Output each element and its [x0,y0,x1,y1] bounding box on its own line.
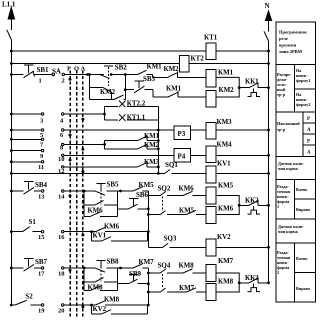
relay box P4 [174,149,191,163]
wire coil KM5 to junction [216,196,239,206]
svg-text:11: 11 [38,164,44,171]
svg-text:КМ7: КМ7 [218,257,234,265]
svg-text:18: 18 [58,271,65,278]
svg-text:20: 20 [58,308,65,315]
contactor coil KM4 [206,146,216,163]
branch SB3: vertical from rung1 [124,75,126,90]
contact KM7 (NO) on rung 17/18 [133,264,143,268]
contactor coil KM2 [206,91,216,108]
rung 1: wire from bus to SB1 [11,74,23,76]
contact KM8 (NO) on rung 19/20 [96,301,106,305]
wire to SB3 [125,89,134,91]
wire to coil KM2 [178,96,206,98]
svg-text:17: 17 [38,271,45,278]
wire coil KM1 to junction [216,77,239,87]
svg-text:О: О [74,66,79,73]
svg-text:форму1: форму1 [296,78,310,83]
rung 5/6 wire [11,129,41,131]
wire SB1 to SA contact [34,74,52,76]
svg-text:Р: Р [67,66,71,73]
wire SB3 to vertical [145,89,153,91]
svg-text:SQ1: SQ1 [165,161,178,169]
disconnect switch QF left pole [7,30,12,40]
relay coil KT2 [180,56,190,73]
rung 7/8 left wire [11,138,41,140]
contact KM6 (NO) on KM5 rung [183,191,193,195]
contactor coil KM5 [206,187,216,204]
svg-text:SB9: SB9 [129,270,142,278]
contact KM1 (NO) on rung 1 [138,70,147,74]
SA position dot rung 5/6 (P) [69,134,72,137]
thermal relay contact KK3 [241,282,249,284]
rung 9/10 left wire [11,150,41,152]
svg-text:КТ1.1: КТ1.1 [127,113,146,121]
svg-text:КМ3: КМ3 [144,158,160,166]
wire to P3 [64,129,174,131]
rung 17/18 wire from bus [11,267,23,269]
svg-text:А: А [307,151,311,156]
section 6: feed presence sensor 2 [278,224,304,234]
svg-text:КМ2: КМ2 [164,65,180,73]
svg-text:Р3: Р3 [178,130,186,138]
KM8 coil rung [148,291,159,293]
neutral arrow N [265,11,271,21]
mechanical link SQ2 dashed [162,197,164,212]
wire SB2 to node [111,74,137,76]
rung 3/4 wire from bus [11,113,41,115]
pushbutton SB1 [24,71,35,78]
switch S2 [15,300,27,305]
svg-text:1: 1 [39,78,42,85]
SA position dot rung 9/10 (P) [69,159,72,162]
pushbutton SB8 (two linked contacts) [95,268,106,272]
left bus L [10,40,12,306]
pushbutton SB4 [24,187,35,194]
contact KM7 (NO seal) on KM8 rung [167,291,187,293]
SA position dot rung 7/8 (A) [81,148,84,151]
SB5 lower contact branch [84,204,95,206]
pushbutton SB3 [134,86,145,93]
mechanical link SQ4 dashed [162,274,164,289]
corner down to SQ2 rung [147,191,149,247]
wire node to SB2 [90,74,105,76]
svg-text:КМ1: КМ1 [144,132,160,140]
wire coil KM3 to N [216,129,269,131]
SB6 branch wire [117,208,128,210]
svg-text:КМ8: КМ8 [179,262,195,270]
svg-text:КМ2: КМ2 [100,88,116,96]
SA position dot rung 19/20 (A) [81,305,84,308]
rung 13/14 wire from bus [11,190,23,192]
SB9 branch wire [117,283,128,285]
SQ1 feed wire from bus [11,172,164,174]
branch KM8 seal: vertical from rung 17/18 [83,268,85,290]
contact KV2 (NO) [102,310,112,314]
contact KM6 (NO) on rung 15/16 [96,228,106,232]
rung 7/8 right wire (stepped) [62,143,64,145]
wire rung KT1 [11,50,268,52]
svg-text:SB6: SB6 [136,191,149,199]
svg-text:L1.1: L1.1 [2,1,16,9]
pushbutton SB7 [24,264,35,271]
parallel contact KV2 branch [91,305,93,314]
section 2: distribution conveyor [293,64,295,111]
svg-text:КМ6: КМ6 [88,207,104,215]
wire coil KV1 to N [216,172,269,174]
wire P4 to coil KM4 [191,154,207,156]
wire coil KM4 to N [216,154,269,156]
svg-text:реле: реле [279,36,288,41]
corner down to SQ4 rung [147,268,149,305]
wire coil KM7 to junction [216,273,239,283]
wire coil KV2 to N [216,246,269,248]
svg-text:КМ5: КМ5 [218,182,234,190]
section 1: programmable time relay [279,30,307,55]
pushbutton SB6 [129,204,138,209]
svg-text:Вправо: Вправо [296,286,310,291]
relay coil KV1 [206,166,216,183]
pushbutton SB2 (two linked contacts) [99,74,109,78]
svg-text:SB2: SB2 [115,64,128,72]
svg-text:Наклонный: Наклонный [277,121,300,126]
svg-text:Р: Р [307,140,310,145]
svg-text:типа 2РВМ: типа 2РВМ [279,49,303,54]
svg-text:2: 2 [62,78,65,85]
contact KM2 (NC) on KM1 coil rung [168,73,178,78]
vertical from KM8 seal to SB9 branch [116,268,118,290]
SA position dot rung 15/16 (A) [81,234,84,237]
SA position dot rung 3/4 (A) [81,118,84,121]
svg-text:КМ4: КМ4 [217,141,233,149]
svg-text:КМ6: КМ6 [104,223,120,231]
svg-text:SQ2: SQ2 [158,185,171,193]
rung 15/16 wire from bus [11,231,22,233]
svg-text:КМ7: КМ7 [179,284,195,292]
contactor coil KM8 [206,284,216,301]
pushbutton SB9 [129,279,138,284]
svg-text:12: 12 [58,168,65,175]
rung 19/20 wire from bus [11,304,15,306]
limit switch SQ1 [164,170,170,174]
svg-text:16: 16 [58,234,65,241]
svg-text:Р: Р [307,117,310,122]
wire to KM2 NC [147,74,153,76]
svg-text:SB1: SB1 [37,66,50,74]
svg-text:10: 10 [58,156,65,163]
vertical from KM6 seal to SB6 branch [116,191,118,216]
KM6 coil rung [148,214,159,216]
svg-text:SB5: SB5 [107,181,120,189]
wire KM2 NC to coil KM1 [178,76,207,78]
right description column outer box [276,22,316,302]
relay coil KT1 [206,43,216,60]
limit switch SQ3 on KV2 rung [148,246,162,248]
svg-text:тр-р: тр-р [277,92,286,97]
svg-text:SQ4: SQ4 [158,262,171,270]
contact KM5 (NO) on rung 13/14 [133,187,143,191]
svg-text:Влево: Влево [296,256,307,261]
limit switch SQ2 [148,195,159,197]
relay coil KV2 [206,239,216,256]
svg-text:Р4: Р4 [178,152,186,160]
selector switch SA dashed position line O [76,71,78,318]
svg-text:15: 15 [38,234,45,241]
svg-text:2: 2 [277,270,279,275]
vertical joining KT mesh to rung 5/6 [157,106,159,173]
branch KM6 seal: vertical from rung 13/14 [83,191,85,216]
wire SB8 to KM7 contact [107,267,134,269]
timed contact KT2.2 [105,105,119,107]
node N label [265,2,270,10]
wire SA to node [65,74,90,76]
phase arrow L1.1 [8,8,14,20]
SA contact 1-2 terminals [52,73,54,75]
branch KM2 seal: vertical from rung1 node [89,75,91,100]
SB8 lower contact branch [84,281,95,283]
svg-text:КМ2: КМ2 [144,141,160,149]
svg-text:Влево: Влево [296,187,307,192]
svg-text:N: N [265,2,270,10]
svg-text:SQ3: SQ3 [164,235,177,243]
SA position dot rung 13/14 (P) [69,194,72,197]
svg-text:14: 14 [58,194,65,201]
thermal relay contact KK1 [241,87,249,89]
wire to SB5 [64,190,95,192]
svg-text:КТ2.2: КТ2.2 [127,100,146,108]
contactor coil KM6 [206,207,216,224]
svg-text:SB4: SB4 [35,181,48,189]
contact KM8 (NO) on KM7 rung [183,269,193,273]
svg-text:S2: S2 [25,293,33,301]
svg-text:чия корма: чия корма [278,166,299,171]
wire P3 to coil KM3 [191,129,207,131]
contact KM1 (NC) on KM2 coil rung [153,96,168,98]
contact KM6 (NO seal) [84,215,90,217]
contactor coil KM1 [206,70,216,88]
switch S1 [22,227,30,232]
KT mesh vertical [104,106,106,120]
limit switch SQ4 [148,272,159,274]
svg-text:А: А [81,66,86,73]
contactor coil KM7 [206,265,216,282]
svg-text:1: 1 [277,204,279,209]
svg-text:КМ8: КМ8 [104,296,120,304]
SA position dot rung 1 (P) [69,78,72,81]
svg-text:КМ5: КМ5 [179,207,195,215]
SB2 lower contact branch [90,87,104,89]
svg-text:КМ7: КМ7 [139,258,155,266]
selector switch label SA [52,68,61,76]
wire SB5 to KM5 contact [107,190,134,192]
contact KM2 (NO seal) [90,99,115,101]
contact KV1 (NO) [102,237,112,241]
svg-text:А: А [307,128,311,133]
contactor coil KM3 [206,123,216,140]
svg-text:КМ1: КМ1 [147,63,163,71]
wire from arrow to disconnect [10,18,12,30]
svg-text:13: 13 [38,194,45,201]
contact KM8 (NO seal) [84,289,90,291]
section 7: distributing platform 2 [293,243,295,302]
thermal relay contact KK2 [241,204,249,206]
junction [10,50,13,53]
selector switch SA dashed position line A [82,71,84,318]
contact KM5 (NO seal) on KM6 rung [167,214,187,216]
rung 11/12 right wire [62,166,64,168]
svg-text:КМ1: КМ1 [218,69,234,77]
wire coil KM6 to junction [216,205,239,214]
svg-text:КМ8: КМ8 [218,278,234,286]
contact KM3 (NC) on rung 11/12 [138,163,147,167]
SA position dot rung 17/18 (P) [69,269,72,272]
pushbutton SB5 (two linked contacts) [95,191,106,195]
svg-text:КК3: КК3 [245,274,259,282]
svg-text:тр-р: тр-р [277,127,286,132]
svg-text:КМ6: КМ6 [218,205,234,213]
node L1.1 label [2,1,16,9]
timed contact KT1.1 [105,119,119,121]
svg-text:Программное: Программное [279,30,307,35]
svg-text:КV2: КV2 [217,233,231,241]
svg-text:форму2: форму2 [296,102,310,107]
selector switch SA dashed position line P [69,71,71,318]
wire to KM6 contact [64,231,96,233]
svg-text:КК1: КК1 [245,78,259,86]
parallel contact KV1 branch [91,232,93,241]
limit switch SQ2 second contact [160,211,166,215]
svg-text:Вправо: Вправо [296,207,310,212]
selector position labels P O A [67,66,86,73]
svg-text:КТ2: КТ2 [191,55,205,63]
wire from N arrow to disconnect [268,20,270,32]
svg-text:КV1: КV1 [217,159,231,167]
contact KM2 (NC) parallel branch [105,148,138,150]
right bus N [268,41,270,283]
svg-text:чия корма: чия корма [278,229,299,234]
rung 11/12 left wire [11,161,41,163]
svg-text:времени: времени [279,43,297,48]
wire to KM8 contact [64,304,96,306]
wire to SB8 [64,267,95,269]
svg-text:КМ2: КМ2 [219,86,235,94]
wire coil KM8 to junction [216,283,239,292]
svg-text:КМ6: КМ6 [179,185,195,193]
svg-text:КМ1: КМ1 [166,84,182,92]
section 3: inclined conveyor with P/A cells [302,112,304,157]
section 4: feed presence sensor [278,161,304,171]
SA position dot rung 11/12 (A) [81,170,84,173]
limit switch SQ4 second contact [160,288,166,292]
svg-text:19: 19 [38,308,45,315]
svg-text:КТ1: КТ1 [204,34,218,42]
wire rung KT2 [11,63,268,65]
svg-text:КV1: КV1 [93,232,107,240]
svg-text:S1: S1 [29,218,37,226]
svg-text:КМ3: КМ3 [217,118,233,126]
svg-text:КV2: КV2 [93,305,107,313]
rung 9/10 right wire [62,154,64,156]
wire coil KM2 to junction [216,88,239,97]
svg-text:SB8: SB8 [107,258,120,266]
contact KM1 (NC) parallel branch [105,140,138,142]
section 5: distributing platform 1 [293,179,295,219]
disconnect switch QF right pole [264,31,269,41]
wire SA contact 4 to KT mesh [64,113,105,115]
svg-text:КК2: КК2 [245,197,259,205]
svg-text:SB3: SB3 [143,75,156,83]
relay box P3 [174,126,191,140]
svg-text:КМ5: КМ5 [139,181,155,189]
svg-text:SB7: SB7 [35,258,48,266]
